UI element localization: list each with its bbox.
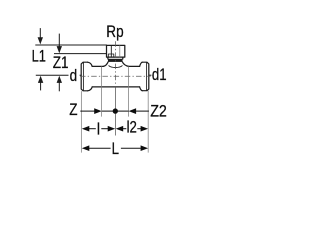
l2 dimension: right arrow: [137, 128, 141, 130]
left insertion stop line: [101, 66, 103, 116]
axis origin dot: [113, 108, 118, 113]
svg-text:Z1: Z1: [53, 54, 69, 73]
Z arrow right: [94, 108, 102, 114]
L dimension line: [82, 145, 90, 151]
Z2 line from dot: [118, 110, 129, 112]
tube top edge left of branch: [92, 65, 103, 67]
left bead mouth inner line: [82, 63, 84, 91]
L1 reference line: [35, 44, 107, 46]
branch boss outline: [107, 45, 125, 57]
thread depth notch: [108, 54, 114, 57]
svg-text:Z2: Z2: [150, 102, 167, 120]
right bead arc to tube (bottom): [140, 87, 143, 91]
Z2 arrow left: [129, 108, 137, 114]
svg-text:l: l: [97, 120, 100, 138]
svg-text:Rp: Rp: [106, 23, 123, 42]
Z1 lower arrow (up): [57, 76, 62, 83]
left bead arc to tube (top): [88, 62, 93, 66]
tube bottom edge: [92, 86, 139, 88]
right insertion stop line: [128, 66, 130, 116]
branch neck left wall: [107, 57, 109, 59]
horizontal pipe axis (dash-dot): [80, 75, 151, 77]
branch hex band: [108, 59, 123, 62]
branch right fillet: [122, 62, 128, 67]
l2 dimension: left arrow: [116, 126, 124, 132]
svg-text:L: L: [112, 140, 119, 159]
fitting body: tee press fitting: [81, 45, 149, 90]
Z1 arrow: [58, 34, 60, 47]
Z2 leader line: [135, 110, 149, 112]
Z line to dot: [102, 110, 113, 112]
svg-text:l2: l2: [127, 118, 137, 137]
left press socket bead: [81, 62, 87, 91]
L1 arrow: [39, 28, 41, 38]
l dimension: right arrow: [101, 128, 109, 130]
svg-text:d1: d1: [152, 66, 167, 85]
d1 leader line: [149, 74, 152, 76]
right end extension line: [147, 91, 149, 153]
boss bore left wall: [110, 46, 112, 57]
left bead arc to tube (bottom): [88, 87, 93, 91]
svg-text:L1: L1: [32, 48, 46, 66]
Z dimension line: [80, 110, 95, 112]
tube top edge right of branch: [129, 65, 140, 67]
L1 lower arrow (up): [38, 76, 43, 83]
left end extension line: [80, 91, 82, 152]
svg-text:d: d: [70, 67, 78, 86]
Z1 reference line: [54, 53, 107, 55]
axis reference line with d label: [36, 74, 82, 76]
vertical branch axis (dash-dot): [114, 41, 116, 87]
saddle arc: [109, 66, 122, 68]
branch left fillet: [103, 62, 108, 67]
branch neck right wall: [122, 57, 124, 59]
l dimension: left arrow: [82, 126, 90, 132]
right bead arc to tube (top): [140, 62, 143, 66]
right press socket bead: [142, 62, 149, 90]
right bead mouth inner line: [146, 63, 148, 91]
boss bore right wall: [119, 46, 121, 57]
svg-text:Z: Z: [69, 101, 77, 120]
vertical axis extension below body: [114, 87, 116, 136]
